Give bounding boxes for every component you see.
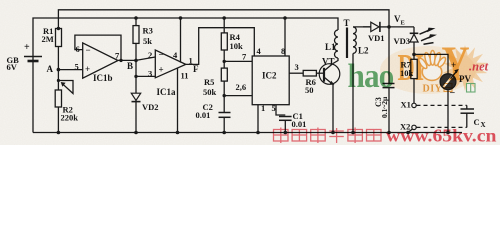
svg-text:B: B bbox=[127, 61, 133, 71]
svg-text:6V: 6V bbox=[7, 62, 18, 72]
svg-text:VD3: VD3 bbox=[394, 36, 411, 46]
svg-text:2M: 2M bbox=[42, 34, 54, 44]
svg-text:1: 1 bbox=[261, 103, 265, 113]
svg-text:0.01: 0.01 bbox=[196, 110, 211, 120]
svg-text:5: 5 bbox=[272, 103, 276, 113]
svg-text:T: T bbox=[344, 18, 350, 28]
svg-text:−: − bbox=[86, 45, 91, 55]
svg-text:+: + bbox=[159, 65, 164, 75]
svg-text:E: E bbox=[401, 20, 405, 27]
svg-text:−: − bbox=[159, 50, 164, 60]
svg-text:X1: X1 bbox=[401, 100, 411, 110]
svg-text:www.65kv.cn: www.65kv.cn bbox=[386, 126, 497, 145]
svg-text:6: 6 bbox=[76, 44, 80, 54]
svg-text:+: + bbox=[85, 64, 90, 74]
svg-text:2,6: 2,6 bbox=[236, 82, 247, 92]
svg-text:10k: 10k bbox=[230, 41, 244, 51]
svg-text:.net: .net bbox=[469, 60, 489, 74]
svg-text:0.1~2μ: 0.1~2μ bbox=[380, 96, 389, 118]
svg-text:R5: R5 bbox=[204, 77, 214, 87]
svg-text:A: A bbox=[47, 64, 54, 74]
svg-text:DIY: DIY bbox=[423, 84, 443, 95]
svg-text:R3: R3 bbox=[143, 26, 153, 36]
svg-text:L1: L1 bbox=[325, 42, 336, 52]
svg-text:0.01: 0.01 bbox=[292, 119, 307, 129]
svg-text:5k: 5k bbox=[143, 36, 152, 46]
svg-text:VD1: VD1 bbox=[368, 33, 385, 43]
svg-text:VD2: VD2 bbox=[142, 102, 159, 112]
svg-text:50: 50 bbox=[305, 85, 314, 95]
svg-text:IC1a: IC1a bbox=[157, 87, 177, 97]
svg-text:5: 5 bbox=[75, 62, 79, 72]
svg-text:3: 3 bbox=[148, 69, 152, 79]
svg-text:hao: hao bbox=[348, 58, 395, 95]
svg-text:L2: L2 bbox=[358, 46, 369, 56]
svg-text:220k: 220k bbox=[61, 113, 79, 123]
svg-text:3: 3 bbox=[295, 62, 299, 72]
svg-text:2: 2 bbox=[148, 50, 152, 60]
svg-text:Y: Y bbox=[442, 35, 470, 91]
svg-text:+: + bbox=[24, 42, 30, 53]
svg-text:VT: VT bbox=[322, 57, 335, 67]
svg-text:IC2: IC2 bbox=[262, 71, 277, 81]
svg-text:DI: DI bbox=[398, 46, 425, 88]
svg-text:IC1b: IC1b bbox=[93, 73, 113, 83]
svg-text:8: 8 bbox=[281, 46, 285, 56]
svg-text:50k: 50k bbox=[203, 87, 217, 97]
svg-text:11: 11 bbox=[181, 71, 189, 81]
svg-text:F: F bbox=[193, 64, 199, 74]
